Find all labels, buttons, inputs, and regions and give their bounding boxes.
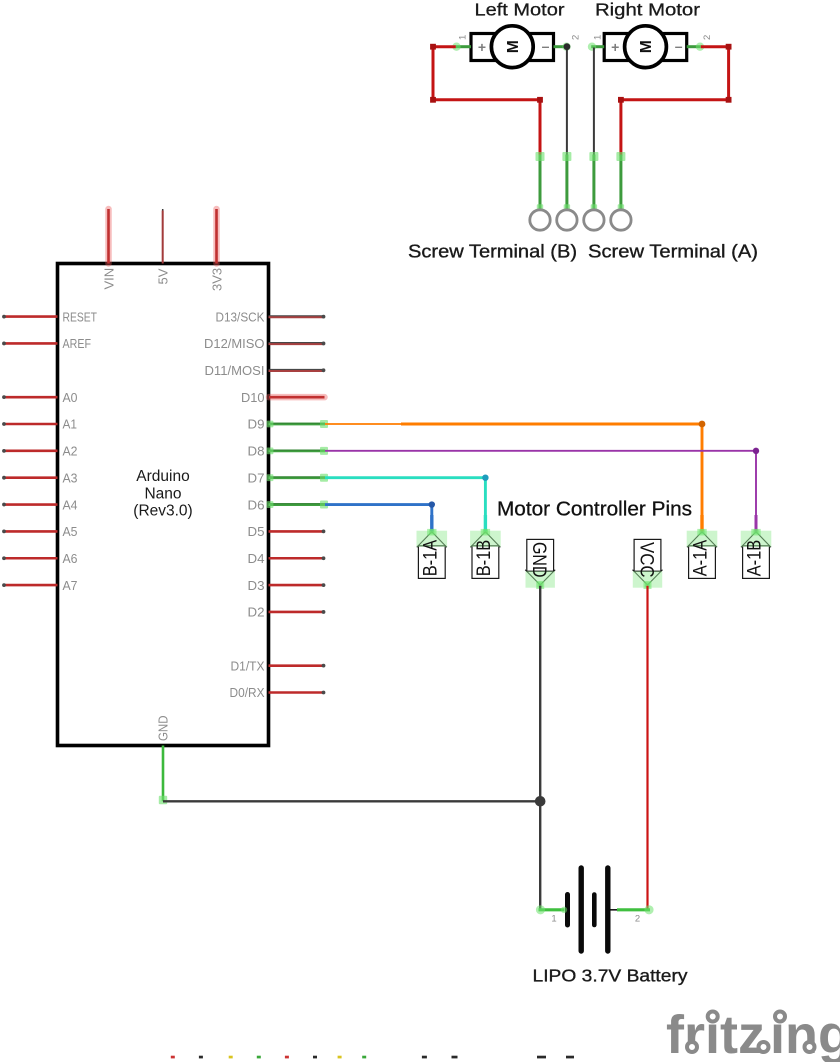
svg-text:D9: D9 (248, 417, 265, 432)
motor M1 (Left Motor) (471, 26, 554, 68)
battery BT1 pin 2 (positive) (611, 905, 654, 924)
clipped caption text at bottom edge (171, 1056, 574, 1059)
svg-text:2: 2 (702, 35, 713, 40)
wire: D9 to A-1A (orange) (325, 424, 702, 532)
U1 pin D6 (right) (248, 497, 329, 512)
motor M1 pin 2 (-) (554, 35, 582, 51)
U1 pin A7 (left) (2, 578, 77, 593)
U1 pin D5 (right) (248, 524, 326, 539)
svg-text:GND: GND (528, 542, 550, 578)
U1 pin D11/MOSI (right) (205, 363, 326, 378)
screw terminal B pin 1 (530, 152, 550, 230)
svg-text:(Rev3.0): (Rev3.0) (133, 503, 192, 520)
svg-text:Left Motor: Left Motor (475, 0, 565, 20)
junction: red bend at (728.6,46.7) (726, 44, 732, 50)
svg-text:D2: D2 (248, 605, 265, 620)
U1 pin 3V3 (top) (209, 209, 224, 291)
svg-text:A5: A5 (63, 524, 78, 539)
svg-text:Screw Terminal (B): Screw Terminal (B) (408, 242, 577, 262)
U1 pin A0 (left) (2, 390, 77, 405)
svg-text:RESET: RESET (63, 309, 98, 324)
fritzing logo rings (687, 1012, 815, 1053)
U1 pin D12/MISO (right) (204, 336, 325, 351)
U1 pin RESET (left) (2, 309, 97, 324)
svg-text:D5: D5 (248, 524, 265, 539)
U1 pin D0/RX (right) (230, 685, 326, 700)
svg-text:A-1A: A-1A (690, 540, 712, 577)
U1 pin D7 (right) (248, 470, 329, 485)
motor M1 pin 1 (+) (452, 35, 471, 51)
net label GND (525, 539, 555, 589)
svg-text:AREF: AREF (63, 336, 92, 351)
U1 pin 5V (top) (156, 209, 171, 285)
svg-text:–: – (675, 38, 683, 54)
U1 pin D9 (right) (248, 417, 329, 432)
U1 pin D4 (right) (248, 551, 326, 566)
svg-text:D4: D4 (248, 551, 265, 566)
junction: blue bend at (431.8,504.6) (429, 501, 435, 507)
svg-text:D3: D3 (248, 578, 265, 593)
U1 pin AREF (left) (2, 336, 91, 351)
screw terminal A pin 1 (584, 152, 604, 230)
net label B-1A (417, 529, 448, 578)
svg-text:Arduino: Arduino (136, 468, 189, 485)
svg-text:GND: GND (156, 716, 171, 742)
svg-text:+: + (478, 39, 486, 55)
screw terminal B pin 2 (557, 152, 577, 230)
junction: orange bend at (702,424) (699, 421, 706, 428)
battery BT1 plates (568, 868, 608, 951)
junction: cyan bend at (485.4,477.7) (482, 475, 488, 481)
motor M2 pin 1 (+) (588, 35, 604, 51)
svg-text:5V: 5V (156, 268, 171, 284)
U1 pin D13/SCK (right) (216, 309, 326, 324)
svg-text:D7: D7 (248, 470, 265, 485)
wire: U1 GND to junction (black) (163, 800, 540, 802)
U1 pin D8 (right) (248, 444, 329, 459)
svg-text:–: – (542, 38, 550, 54)
wire: D7 to B-1B (cyan) (325, 478, 485, 532)
battery BT1 pin 1 (negative) (536, 905, 567, 924)
U1 pin A2 (left) (2, 444, 77, 459)
svg-text:M: M (505, 40, 522, 53)
U1 pin A6 (left) (2, 551, 77, 566)
svg-text:M: M (638, 40, 655, 53)
svg-text:A4: A4 (63, 497, 78, 512)
svg-text:A-1B: A-1B (744, 540, 766, 577)
U1 pin GND (bottom) (156, 716, 171, 805)
svg-text:VIN: VIN (101, 268, 116, 290)
svg-text:2: 2 (571, 35, 582, 40)
svg-text:B-1B: B-1B (473, 540, 495, 577)
svg-text:D1/TX: D1/TX (231, 658, 265, 673)
svg-text:LIPO 3.7V Battery: LIPO 3.7V Battery (533, 966, 688, 986)
svg-text:1: 1 (551, 914, 556, 925)
U1 pin VIN (top) (101, 209, 116, 290)
net label VCC (633, 539, 663, 589)
U1 pin D2 (right) (248, 605, 326, 620)
svg-text:D0/RX: D0/RX (230, 685, 265, 700)
svg-text:A0: A0 (63, 390, 78, 405)
screw terminal A pin 2 (611, 152, 631, 230)
svg-text:1: 1 (593, 35, 604, 40)
U1 pin A1 (left) (2, 417, 77, 432)
svg-text:Right Motor: Right Motor (595, 0, 700, 20)
net label B-1B (470, 529, 501, 578)
net label A-1A (687, 529, 718, 578)
wire: D6 to B-1A (blue) (325, 505, 432, 532)
junction: node at M1 pin2 (566.9,46.7) (564, 43, 571, 50)
svg-text:D6: D6 (248, 497, 265, 512)
wire: GND flag to battery pin 1 (black) (539, 586, 541, 910)
U1 pin D3 (right) (248, 578, 326, 593)
wire: M2 pin2 to screw terminal A pin2 (red) (621, 47, 729, 156)
U1 pin D1/TX (right) (231, 658, 326, 673)
wire: M1 pin2 to screw terminal B pin2 (black) (566, 47, 568, 156)
svg-text:D8: D8 (248, 444, 265, 459)
svg-text:Nano: Nano (144, 485, 181, 502)
U1 pin D10 (right) (241, 390, 325, 405)
svg-text:D10: D10 (241, 390, 265, 405)
wire: M2 pin1 to screw terminal A pin1 (black) (593, 48, 595, 157)
motor M2 (Right Motor) (604, 26, 687, 68)
wire: D8 to A-1B (purple) (325, 451, 756, 532)
svg-text:Screw Terminal (A): Screw Terminal (A) (588, 242, 758, 262)
junction: red bend at (433,46.7) (430, 44, 436, 50)
svg-text:1: 1 (458, 35, 469, 40)
U1 pin A3 (left) (2, 470, 77, 485)
motor M2 pin 2 (-) (687, 35, 713, 51)
svg-text:2: 2 (635, 914, 640, 925)
junction: red bend at (728.6,99.8) (726, 97, 732, 103)
svg-text:3V3: 3V3 (209, 268, 224, 291)
junction: GND node at (540.2,801.3) (535, 796, 546, 807)
wire: VCC flag to battery pin 2 (red) (646, 586, 648, 910)
svg-text:B-1A: B-1A (419, 540, 441, 577)
svg-text:A3: A3 (63, 470, 78, 485)
svg-text:Motor Controller Pins: Motor Controller Pins (497, 499, 692, 521)
junction: purple bend at (756,450.9) (753, 448, 759, 454)
junction: red bend at (540,99.8) (537, 97, 543, 103)
Arduino Nano U1 body (58, 264, 269, 746)
wire: M1 pin1 to screw terminal B pin1 (red) (433, 47, 540, 156)
svg-text:D13/SCK: D13/SCK (216, 309, 265, 324)
svg-text:A2: A2 (63, 444, 78, 459)
U1 pin A5 (left) (2, 524, 77, 539)
svg-text:+: + (611, 39, 619, 55)
junction: red bend at (433,99.8) (430, 97, 436, 103)
U1 pin A4 (left) (2, 497, 77, 512)
svg-text:D12/MISO: D12/MISO (204, 336, 265, 351)
svg-text:D11/MOSI: D11/MOSI (205, 363, 265, 378)
fritzing watermark logo (666, 1005, 840, 1062)
svg-text:A6: A6 (63, 551, 78, 566)
net label A-1B (741, 529, 772, 578)
svg-text:A1: A1 (63, 417, 78, 432)
junction: red bend at (620.9,99.8) (618, 97, 624, 103)
svg-text:A7: A7 (63, 578, 78, 593)
svg-text:VCC: VCC (635, 542, 657, 578)
